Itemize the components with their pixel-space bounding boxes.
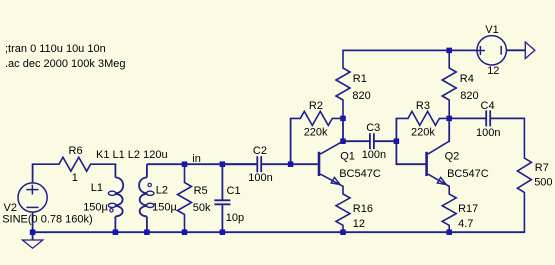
- svg-text:L1: L1: [91, 182, 103, 194]
- Q2 collector diagonal: [428, 141, 449, 154]
- C3 value label 100n: [362, 149, 386, 161]
- inductor L2: [139, 164, 154, 232]
- node junction L2 bottom: [145, 230, 150, 235]
- net label in: [192, 153, 201, 165]
- Q1 type label BC547C: [339, 168, 381, 180]
- svg-text:C1: C1: [227, 185, 241, 197]
- R1 name label: [353, 73, 367, 85]
- Q2 collector vertical: [448, 118, 450, 142]
- V2 minus sign: [26, 206, 38, 208]
- svg-text:220k: 220k: [411, 126, 435, 138]
- voltage source V2 circle: [18, 183, 47, 212]
- resistor R16: [336, 186, 350, 232]
- svg-text:C3: C3: [366, 122, 380, 134]
- svg-text:R4: R4: [460, 73, 474, 85]
- V1 value label 12: [487, 65, 499, 77]
- resistor R6: [33, 157, 116, 171]
- Q1 emitter arrow: [331, 177, 340, 184]
- svg-text:C4: C4: [481, 100, 495, 112]
- C1 name label: [227, 185, 241, 197]
- svg-text:.ac dec 2000 100k 3Meg: .ac dec 2000 100k 3Meg: [5, 58, 125, 70]
- C4 name label: [481, 100, 495, 112]
- V2 value label SINE: [2, 214, 93, 226]
- svg-text:V2: V2: [4, 202, 17, 214]
- R16 value label 12: [353, 218, 365, 230]
- node junction R5 bottom: [182, 230, 187, 235]
- resistor R5: [178, 164, 192, 232]
- spice directive .ac: [5, 58, 125, 70]
- svg-text:220k: 220k: [304, 126, 328, 138]
- wire ground rail: [33, 231, 525, 233]
- R1 value label 820: [352, 90, 370, 102]
- node junction C3 left at Q1 collector: [341, 139, 346, 144]
- svg-text:500: 500: [534, 177, 552, 189]
- svg-text:12: 12: [353, 218, 365, 230]
- Q1 collector diagonal: [320, 141, 343, 154]
- svg-text:150µ: 150µ: [152, 201, 177, 213]
- R3 name label: [416, 100, 430, 112]
- node junction R5 top: [182, 162, 187, 167]
- Q1 name label: [340, 151, 355, 163]
- svg-text:820: 820: [352, 90, 370, 102]
- svg-text:R3: R3: [416, 100, 430, 112]
- svg-text:10p: 10p: [226, 212, 244, 224]
- svg-text:1: 1: [72, 172, 78, 184]
- R5 value label 50k: [193, 202, 211, 214]
- svg-text:100n: 100n: [476, 127, 500, 139]
- node junction C2 right / R2 / Q1 base: [288, 162, 293, 167]
- Q2 name label: [445, 151, 460, 163]
- voltage source V1 circle: [477, 36, 506, 65]
- ground at V1 (rotated right): [525, 42, 535, 59]
- node junction C3 right / R3 / Q2 base: [394, 139, 399, 144]
- svg-text:50k: 50k: [193, 202, 211, 214]
- C3 name label: [366, 122, 380, 134]
- wire V2 bottom to rail: [32, 212, 34, 232]
- transistor Q1 base bar: [318, 152, 321, 176]
- inductor L1: [108, 164, 123, 232]
- capacitor C1: [214, 164, 230, 232]
- V1 name label: [485, 24, 498, 36]
- Q1 base wire: [291, 163, 318, 165]
- L2 name label: [156, 184, 168, 196]
- capacitor C4: [449, 110, 524, 126]
- R7 value label 500: [534, 177, 552, 189]
- svg-text:100n: 100n: [362, 149, 386, 161]
- node junction R17 bottom: [447, 230, 452, 235]
- node junction C1 top: [220, 162, 225, 167]
- resistor R2: [291, 111, 343, 125]
- wire Q1 collector vertical: [342, 118, 344, 141]
- svg-text:R7: R7: [535, 162, 549, 174]
- node junction C1 bottom: [220, 230, 225, 235]
- svg-text:4.7: 4.7: [458, 218, 473, 230]
- wire Q2 base drop: [396, 141, 425, 164]
- capacitor C3: [343, 133, 396, 149]
- R2 name label: [309, 100, 323, 112]
- capacitor C2: [222, 156, 290, 172]
- transistor Q2 base bar: [425, 152, 428, 176]
- svg-text:BC547C: BC547C: [339, 168, 381, 180]
- node junction R4 bottom / R3 right: [447, 116, 452, 121]
- R3 value label 220k: [411, 126, 435, 138]
- V2 plus sign: [26, 185, 38, 195]
- Q2 type label BC547C: [447, 168, 489, 180]
- node junction L1 bottom: [113, 230, 118, 235]
- L1 name label: [91, 182, 103, 194]
- svg-text:820: 820: [460, 90, 478, 102]
- C2 value label 100n: [248, 172, 272, 184]
- V1 plus sign: [476, 46, 485, 55]
- R7 name label: [535, 162, 549, 174]
- wire R3 left drop to C3 node: [395, 118, 397, 141]
- svg-text:C2: C2: [253, 145, 267, 157]
- wire node in from L2 to C2: [147, 163, 256, 165]
- Q2 emitter arrow: [437, 177, 446, 184]
- K coupling directive label: [96, 149, 168, 161]
- ground under V2: [22, 240, 42, 248]
- resistor R3: [396, 111, 449, 125]
- L1 value label 150u: [83, 201, 108, 213]
- svg-text:L2: L2: [156, 184, 168, 196]
- wire R2 left drop to Q1 base node: [290, 118, 292, 164]
- svg-text:R5: R5: [194, 185, 208, 197]
- R17 name label: [458, 203, 478, 215]
- svg-text:R1: R1: [353, 73, 367, 85]
- resistor R17: [442, 186, 456, 232]
- resistor R1: [336, 50, 350, 118]
- R6 value label 1: [72, 172, 78, 184]
- V1 minus sign (rotated): [500, 46, 502, 55]
- svg-text:K1 L1 L2 120u: K1 L1 L2 120u: [96, 149, 168, 161]
- svg-text:R2: R2: [309, 100, 323, 112]
- V2 name label: [4, 202, 17, 214]
- resistor R4: [442, 50, 456, 118]
- C4 value label 100n: [476, 127, 500, 139]
- svg-text:SINE(0 0.78 160k): SINE(0 0.78 160k): [2, 214, 93, 226]
- R6 name label: [69, 145, 83, 157]
- svg-text:100n: 100n: [248, 172, 272, 184]
- resistor R7: [517, 118, 531, 232]
- wire V2 top to R6: [32, 164, 34, 183]
- R17 value label 4.7: [458, 218, 473, 230]
- C2 name label: [253, 145, 267, 157]
- svg-text:Q2: Q2: [445, 151, 460, 163]
- wire ground stub under V2: [32, 232, 34, 240]
- wire VCC rail from R1 top to V1 plus: [343, 49, 477, 51]
- wire V1 minus to ground: [506, 49, 525, 51]
- Q2 emitter diagonal: [428, 174, 449, 186]
- Q1 emitter diagonal: [320, 174, 343, 186]
- R16 name label: [353, 203, 373, 215]
- R5 name label: [194, 185, 208, 197]
- R2 value label 220k: [304, 126, 328, 138]
- node junction R16 bottom: [341, 230, 346, 235]
- svg-text:R17: R17: [458, 203, 478, 215]
- L2 value label 150u: [152, 201, 177, 213]
- svg-text:12: 12: [487, 65, 499, 77]
- node junction R1 bottom / R2 right: [341, 116, 346, 121]
- svg-text:;tran 0 110u 10u 10n: ;tran 0 110u 10u 10n: [5, 43, 106, 55]
- L2 phase dot: [148, 183, 151, 186]
- svg-text:R16: R16: [353, 203, 373, 215]
- svg-text:V1: V1: [485, 24, 498, 36]
- svg-text:in: in: [192, 153, 201, 165]
- spice directive .tran (commented): [5, 43, 106, 55]
- C1 value label 10p: [226, 212, 244, 224]
- R4 value label 820: [460, 90, 478, 102]
- node junction V2 ground: [30, 230, 35, 235]
- R4 name label: [460, 73, 474, 85]
- node junction R4 top on VCC rail: [447, 48, 452, 53]
- L1 phase dot: [110, 209, 113, 212]
- svg-text:R6: R6: [69, 145, 83, 157]
- svg-text:150µ: 150µ: [83, 201, 108, 213]
- svg-text:Q1: Q1: [340, 151, 355, 163]
- svg-text:BC547C: BC547C: [447, 168, 489, 180]
